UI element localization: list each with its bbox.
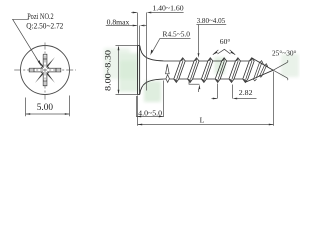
svg-text:Pozi NO.2: Pozi NO.2 bbox=[27, 12, 54, 21]
svg-text:0.8max: 0.8max bbox=[107, 18, 130, 27]
dimension L extension line left bbox=[137, 96, 139, 126]
thread start bowtie bbox=[166, 64, 170, 82]
dimension 1.40~1.60 left tail and arrow bbox=[131, 12, 136, 14]
green highlight patch at tip (overlay) bbox=[281, 54, 299, 77]
head face line bbox=[137, 46, 139, 95]
pozi recess horizontal slot bbox=[29, 68, 61, 72]
svg-text:Q:2.50~2.72: Q:2.50~2.72 bbox=[26, 21, 63, 30]
thread ribbon 1 bbox=[174, 58, 185, 83]
dimension 5.00 extension lines bbox=[26, 96, 70, 117]
svg-text:60°: 60° bbox=[220, 37, 231, 46]
dimension 8.00~8.30 arrows bbox=[118, 46, 120, 95]
svg-text:R4.5~5.0: R4.5~5.0 bbox=[163, 30, 191, 39]
thread ribbon 2 bbox=[188, 58, 199, 83]
svg-text:4.0~5.0: 4.0~5.0 bbox=[138, 109, 162, 117]
head circle bbox=[21, 46, 70, 95]
extension line 0.8 band (up) bbox=[139, 26, 141, 46]
head curve bottom bbox=[140, 79, 164, 94]
horizontal centerline bbox=[14, 69, 76, 71]
dimension 0.8max line with arrow bbox=[106, 25, 137, 27]
pozi recess diagonal wing bottom-left bbox=[35, 73, 44, 83]
svg-text:3.80~4.05: 3.80~4.05 bbox=[197, 16, 226, 25]
svg-text:2.82: 2.82 bbox=[239, 88, 253, 97]
dimension 4.0~5.0 line bbox=[137, 116, 164, 118]
green highlight patch left of head bbox=[104, 48, 161, 102]
thread ribbon 4 bbox=[215, 58, 226, 83]
svg-text:8.00~8.30: 8.00~8.30 bbox=[104, 50, 113, 91]
dimension 5.00 arrows bbox=[26, 113, 70, 115]
leader line for Pozi label bbox=[13, 19, 40, 63]
60 degree thread profile detail bbox=[217, 49, 230, 54]
extension line 1.60 right (through head) bbox=[146, 13, 148, 91]
dimension 2.82 right arrow and tail under text bbox=[233, 98, 238, 100]
pozi recess slot end caps bbox=[34, 59, 56, 81]
vertical centerline bbox=[44, 43, 46, 100]
svg-text:L: L bbox=[200, 115, 205, 124]
pozi recess diagonal wing bottom-right bbox=[46, 73, 55, 83]
leader R4.5~5.0 bbox=[152, 39, 191, 53]
taper thread 2 bbox=[259, 64, 268, 77]
dimension 2.82 extension lines bbox=[218, 84, 233, 99]
60 degree flank arrows bbox=[213, 50, 219, 55]
thread ribbon 6 bbox=[243, 58, 254, 83]
thread ribbon 3 bbox=[201, 58, 212, 83]
core bottom line bbox=[164, 78, 246, 80]
leader arrowhead bbox=[38, 60, 42, 66]
tip taper bottom bbox=[245, 70, 273, 82]
dimension 8.00~8.30 line bbox=[118, 47, 120, 93]
dimension 3.80~4.05 upper arrow bbox=[198, 25, 200, 54]
dimension 4.0~5.0 arrows bbox=[137, 116, 164, 118]
taper thread 1 bbox=[253, 61, 263, 81]
core top line bbox=[164, 60, 253, 62]
tip angle line upper bbox=[273, 60, 288, 70]
pozi recess vertical slot bbox=[29, 54, 61, 86]
dimension 1.40~1.60 right arrow and tail bbox=[147, 12, 152, 14]
pozi recess diagonal wing top-left bbox=[35, 57, 44, 67]
dimension 4.0~5.0 extension lines bbox=[137, 81, 164, 118]
dimension L extension line right (from tip) bbox=[273, 72, 275, 126]
dimension 0.8max right arrow bbox=[140, 25, 145, 27]
head band line bbox=[139, 46, 141, 95]
thread ribbon 5 bbox=[229, 58, 240, 83]
dimension 5.00 line bbox=[26, 113, 70, 115]
head rim top edge bbox=[137, 45, 140, 47]
tip taper top bbox=[252, 58, 273, 70]
dimension L arrows bbox=[138, 124, 274, 126]
leader R4.5 arrowhead bbox=[150, 50, 153, 56]
svg-text:5.00: 5.00 bbox=[37, 102, 54, 112]
svg-text:1.40~1.60: 1.40~1.60 bbox=[152, 3, 184, 12]
green highlight patch on threads (overlay) bbox=[215, 54, 300, 77]
pozi recess center corner cuts bbox=[41, 66, 49, 74]
tip angle line lower bbox=[273, 70, 288, 80]
dimension 2.82 left tail and arrow bbox=[212, 98, 217, 100]
label 3.80~4.05 with underline bbox=[196, 24, 226, 26]
dimension L line bbox=[138, 124, 274, 126]
dimension 3.80~4.05 lower arrow with jog bbox=[189, 79, 199, 92]
pozi recess diagonal wing top-right bbox=[46, 57, 55, 67]
head rim bottom edge bbox=[137, 93, 140, 95]
dimension 8.00~8.30 extension lines bbox=[116, 46, 138, 95]
head curve top bbox=[140, 46, 164, 61]
extension line face (up) bbox=[137, 13, 139, 46]
green highlight patch below shank start bbox=[144, 81, 161, 102]
